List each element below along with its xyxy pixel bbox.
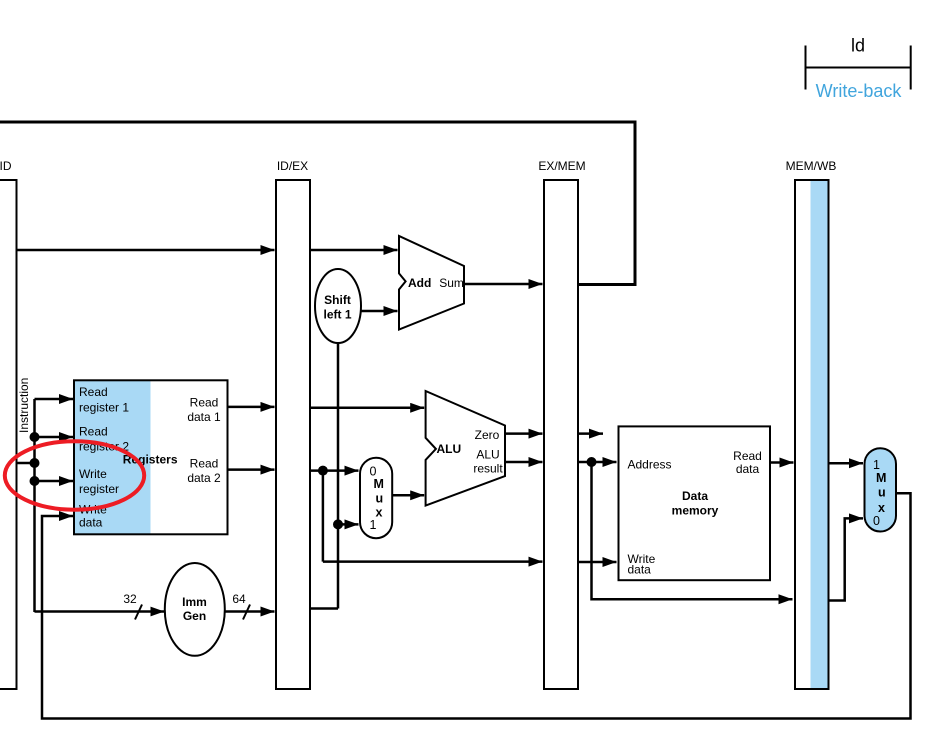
svg-text:1: 1: [873, 458, 880, 472]
svg-text:ld: ld: [851, 36, 865, 56]
svg-text:Zero: Zero: [475, 428, 500, 442]
svg-text:left 1: left 1: [323, 308, 351, 322]
svg-text:register 1: register 1: [79, 400, 129, 414]
svg-text:u: u: [878, 486, 886, 500]
svg-text:x: x: [878, 501, 885, 515]
svg-text:64: 64: [232, 592, 246, 606]
svg-text:Sum: Sum: [439, 276, 464, 290]
svg-text:data 2: data 2: [187, 471, 221, 485]
svg-text:ALU: ALU: [437, 442, 462, 456]
svg-text:memory: memory: [672, 504, 719, 518]
svg-text:u: u: [376, 492, 384, 506]
svg-text:Read: Read: [190, 457, 219, 471]
svg-text:Add: Add: [408, 276, 431, 290]
svg-text:data 1: data 1: [187, 410, 221, 424]
svg-text:Address: Address: [628, 458, 672, 472]
svg-text:ALU: ALU: [476, 448, 499, 462]
svg-text:M: M: [374, 477, 384, 491]
svg-text:data: data: [79, 516, 103, 530]
svg-text:Write: Write: [79, 467, 107, 481]
svg-text:register: register: [79, 482, 119, 496]
svg-text:Gen: Gen: [183, 609, 206, 623]
svg-text:Data: Data: [682, 489, 708, 503]
svg-text:32: 32: [123, 592, 137, 606]
svg-text:x: x: [376, 506, 383, 520]
svg-text:Read: Read: [733, 449, 762, 463]
svg-text:ID/EX: ID/EX: [277, 159, 308, 173]
svg-text:Shift: Shift: [324, 293, 351, 307]
svg-text:Read: Read: [79, 424, 108, 438]
svg-text:0: 0: [873, 514, 880, 528]
svg-text:F/ID: F/ID: [0, 159, 12, 173]
svg-text:data: data: [628, 563, 652, 577]
svg-text:EX/MEM: EX/MEM: [538, 159, 585, 173]
svg-text:Read: Read: [190, 396, 219, 410]
svg-text:MEM/WB: MEM/WB: [786, 159, 837, 173]
svg-text:M: M: [876, 471, 886, 485]
svg-text:data: data: [736, 462, 760, 476]
svg-text:Imm: Imm: [182, 595, 207, 609]
svg-text:result: result: [473, 462, 503, 476]
svg-text:Instruction: Instruction: [17, 378, 31, 433]
svg-text:1: 1: [370, 518, 377, 532]
svg-text:Write-back: Write-back: [816, 81, 903, 101]
svg-text:Read: Read: [79, 385, 108, 399]
